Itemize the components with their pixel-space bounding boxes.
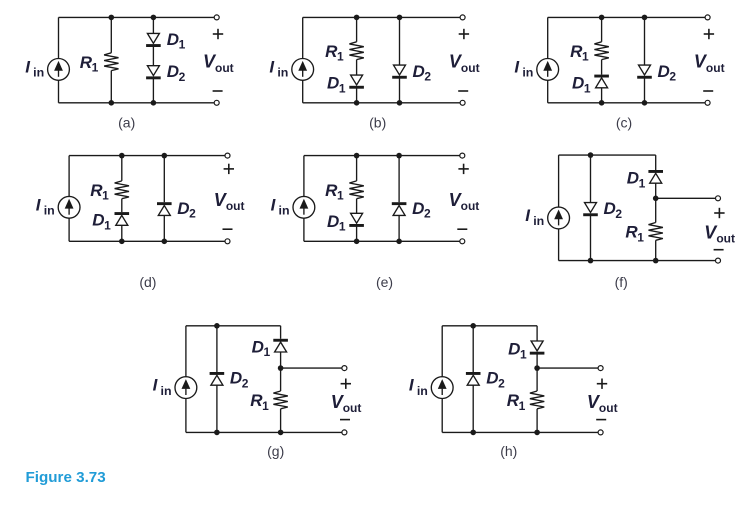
minus sign (d): [223, 228, 233, 230]
wire: (e) R1-D1 branch middle: [356, 199, 358, 214]
plus sign (d): [224, 164, 234, 174]
circuit (b): current source, R1 in series with D1, parallel D2, output Vout: [269, 15, 479, 131]
wire: (d) D2 branch upper: [163, 156, 165, 203]
wire: (d) R1-D1 branch middle: [121, 199, 123, 212]
node: (a) bottom R1 junction: [109, 100, 115, 106]
plus sign (b): [459, 29, 469, 39]
wire: (d) bottom rail: [69, 240, 227, 242]
node: (e) top middle junction: [354, 153, 360, 159]
wire: (d) R1-D1 branch upper: [121, 156, 123, 181]
wire: (h) bottom rail: [442, 431, 600, 433]
circuit (h): current source, parallel D2, D1 in series with R1, output across R1: [409, 323, 618, 459]
plus sign (a): [213, 29, 223, 39]
minus sign (h): [596, 419, 606, 421]
wire: (c) bottom rail: [548, 102, 708, 104]
wire: (c) R1-D1 branch middle: [601, 60, 603, 75]
diode D1 (a): [146, 33, 161, 47]
wire: (b) source branch upper: [302, 17, 304, 58]
minus sign (e): [457, 228, 467, 230]
node: (h) output node: [534, 365, 540, 371]
node: (h) bottom D2 junction: [470, 430, 476, 436]
resistor R1 (a): [104, 53, 118, 71]
svg-text:(g): (g): [267, 443, 284, 459]
circuit (a): current source, R1, series diodes D1 D2, output Vout: [25, 15, 233, 131]
node: (h) bottom R1 junction: [534, 430, 540, 436]
diode D2 (g): [210, 372, 225, 385]
diode D2 (e): [392, 202, 407, 215]
wire: (f) source branch lower: [558, 229, 560, 261]
wire: (e) source branch upper: [303, 156, 305, 197]
wire: (g) top rail: [186, 325, 281, 327]
terminal: (b) Vout -: [460, 100, 465, 105]
wire: (d) source branch lower: [68, 218, 70, 241]
wire: (a) bottom rail: [59, 102, 217, 104]
node: (a) top diode junction: [151, 15, 157, 21]
node: (d) bottom D2 junction: [162, 239, 168, 245]
terminal: (a) Vout +: [214, 15, 219, 20]
diode D2 (d): [157, 202, 172, 215]
diode D1 (h): [530, 341, 545, 355]
wire: (c) R1-D1 branch lower: [601, 88, 603, 103]
circuit (e): current source, R1 in series with D1, parallel D2, output Vout: [271, 153, 480, 290]
wire: (h) D2 branch upper: [472, 326, 474, 372]
current source Iin (c): [537, 59, 559, 81]
wire: (g) D1 branch upper: [280, 326, 282, 339]
wire: (d) D2 branch lower: [163, 215, 165, 241]
wire: (d) R1-D1 branch lower: [121, 225, 123, 241]
wire: (g) D2 branch lower: [216, 385, 218, 432]
diode D2 (f): [583, 203, 598, 217]
svg-text:(c): (c): [616, 115, 632, 131]
svg-text:(e): (e): [376, 274, 393, 290]
svg-text:(d): (d): [139, 274, 156, 290]
wire: (b) source branch lower: [302, 80, 304, 103]
terminal: (a) Vout -: [214, 100, 219, 105]
wire: (b) R1-D1 branch upper: [356, 17, 358, 41]
diode D1 (b): [349, 75, 364, 89]
minus sign (g): [340, 419, 350, 421]
wire: (e) D2 branch upper: [398, 156, 400, 203]
wire: (d) source branch upper: [68, 156, 70, 197]
current source Iin (e): [293, 196, 315, 218]
node: (e) bottom middle junction: [354, 239, 360, 245]
wire: (e) top rail: [304, 155, 462, 157]
wire: (e) source branch lower: [303, 218, 305, 241]
terminal: (h) Vout +: [598, 366, 603, 371]
terminal: (e) Vout +: [460, 153, 465, 158]
wire: (h) D1 to node: [536, 354, 538, 368]
minus sign (b): [458, 90, 468, 92]
diode D1 (c): [594, 75, 609, 88]
wire: (f) D1 to node: [655, 183, 657, 198]
wire: (g) R1 to bottom rail: [280, 409, 282, 433]
resistor R1 (b): [349, 42, 363, 60]
terminal: (c) Vout +: [705, 15, 710, 20]
terminal: (h) Vout -: [598, 430, 603, 435]
current source Iin (f): [548, 207, 570, 229]
svg-text:(f): (f): [615, 274, 628, 290]
svg-text:(a): (a): [118, 115, 135, 131]
terminal: (c) Vout -: [705, 100, 710, 105]
resistor R1 (f): [649, 223, 663, 241]
terminal: (e) Vout -: [460, 239, 465, 244]
wire: (f) D1 branch upper: [655, 155, 657, 170]
node: (c) top D2 junction: [642, 15, 648, 21]
wire: (f) source branch upper: [558, 155, 560, 207]
resistor R1 (c): [594, 42, 608, 60]
wire: (f) R1 to bottom rail: [655, 240, 657, 260]
terminal: (g) Vout -: [342, 430, 347, 435]
wire: (b) top rail: [303, 16, 463, 18]
node: (f) output node: [653, 196, 659, 202]
diode D1 (f): [648, 170, 663, 183]
current source Iin (a): [48, 59, 70, 81]
node: (b) bottom middle junction: [354, 100, 360, 106]
svg-text:(h): (h): [500, 443, 517, 459]
node: (g) bottom D2 junction: [214, 430, 220, 436]
wire: (h) D2 branch lower: [472, 385, 474, 432]
wire: (a) top rail: [59, 16, 217, 18]
plus sign (f): [714, 208, 724, 218]
wire: (e) bottom rail: [304, 240, 462, 242]
diode D1 (g): [273, 339, 288, 352]
wire: (c) D2 branch lower: [644, 78, 646, 102]
plus sign (c): [704, 29, 714, 39]
wire: (g) bottom rail: [186, 431, 345, 433]
wire: (b) D2 branch lower: [399, 78, 401, 102]
wire: (h) output tap: [537, 367, 601, 369]
wire: (c) R1-D1 branch upper: [601, 17, 603, 41]
plus sign (g): [341, 379, 351, 389]
wire: (g) node to R1: [280, 368, 282, 391]
node: (f) top D2 junction: [588, 152, 594, 158]
wire: (f) top rail: [559, 154, 656, 156]
node: (e) bottom D2 junction: [396, 239, 402, 245]
plus sign (h): [597, 379, 607, 389]
terminal: (f) Vout +: [716, 196, 721, 201]
node: (b) top D2 junction: [397, 15, 403, 21]
wire: (e) D2 branch lower: [398, 215, 400, 241]
node: (c) top middle junction: [599, 15, 605, 21]
wire: (h) R1 to bottom rail: [536, 409, 538, 433]
wire: (g) output tap: [281, 367, 345, 369]
plus sign (e): [458, 164, 468, 174]
circuit (d): current source, R1 in series with D1, parallel D2, output Vout: [36, 153, 245, 290]
wire: (g) source branch upper: [185, 326, 187, 377]
node: (a) top R1 junction: [109, 15, 115, 21]
resistor R1 (h): [530, 391, 544, 409]
diode D1 (d): [115, 212, 130, 225]
node: (d) bottom middle junction: [119, 239, 125, 245]
wire: (f) D2 branch upper: [590, 155, 592, 203]
svg-text:(b): (b): [369, 115, 386, 131]
wire: (c) source branch lower: [547, 80, 549, 103]
wire: (h) node to R1: [536, 368, 538, 391]
wire: (h) source branch upper: [441, 326, 443, 377]
circuit (g): current source, parallel D2, D1 in series with R1, output across R1: [153, 323, 362, 459]
wire: (a) source branch lower: [58, 80, 60, 103]
node: (c) bottom middle junction: [599, 100, 605, 106]
terminal: (d) Vout -: [225, 239, 230, 244]
node: (d) top D2 junction: [162, 153, 168, 159]
terminal: (b) Vout +: [460, 15, 465, 20]
wire: (a) source branch upper: [58, 17, 60, 58]
wire: (h) D1 branch upper: [536, 326, 538, 341]
wire: (e) R1-D1 branch lower: [356, 227, 358, 242]
minus sign (f): [714, 249, 724, 251]
resistor R1 (d): [115, 181, 129, 199]
wire: (b) D2 branch upper: [399, 17, 401, 65]
diode D2 (a): [146, 66, 161, 80]
diode D2 (h): [466, 372, 481, 385]
wire: (d) top rail: [69, 155, 227, 157]
node: (d) top middle junction: [119, 153, 125, 159]
current source Iin (d): [58, 196, 80, 218]
wire: (c) top rail: [548, 16, 708, 18]
wire: (a) diode branch upper: [152, 17, 154, 33]
wire: (h) source branch lower: [441, 399, 443, 433]
minus sign (c): [703, 90, 713, 92]
terminal: (g) Vout +: [342, 366, 347, 371]
node: (g) bottom R1 junction: [278, 430, 284, 436]
wire: (e) R1-D1 branch upper: [356, 156, 358, 181]
terminal: (d) Vout +: [225, 153, 230, 158]
circuit (c): current source, R1 in series with D1, parallel D2, output Vout: [514, 15, 724, 131]
node: (g) top D2 junction: [214, 323, 220, 329]
wire: (f) bottom rail: [559, 260, 718, 262]
wire: (a) R1 branch lower: [110, 71, 112, 103]
node: (e) top D2 junction: [396, 153, 402, 159]
wire: (b) R1-D1 branch middle: [356, 60, 358, 76]
current source Iin (h): [431, 377, 453, 399]
wire: (c) source branch upper: [547, 17, 549, 58]
wire: (b) R1-D1 branch lower: [356, 88, 358, 102]
node: (b) top middle junction: [354, 15, 360, 21]
wire: (c) D2 branch upper: [644, 17, 646, 65]
wire: (a) diode branch lower: [152, 79, 154, 103]
wire: (f) node to R1: [655, 198, 657, 222]
node: (c) bottom D2 junction: [642, 100, 648, 106]
terminal: (f) Vout -: [716, 258, 721, 263]
resistor R1 (e): [349, 181, 363, 199]
wire: (g) D1 to node: [280, 352, 282, 368]
wire: (h) top rail: [442, 325, 537, 327]
wire: (g) D2 branch upper: [216, 326, 218, 372]
diode D2 (b): [392, 65, 407, 79]
wire: (f) D2 branch lower: [590, 216, 592, 261]
wire: (f) output tap: [656, 197, 718, 199]
wire: (a) diode branch middle: [152, 47, 154, 66]
node: (f) bottom R1 junction: [653, 258, 659, 264]
wire: (g) source branch lower: [185, 399, 187, 433]
current source Iin (b): [292, 59, 314, 81]
node: (b) bottom D2 junction: [397, 100, 403, 106]
wire: (b) bottom rail: [303, 102, 463, 104]
node: (g) output node: [278, 365, 284, 371]
current source Iin (g): [175, 377, 197, 399]
node: (h) top D2 junction: [470, 323, 476, 329]
circuit (f): current source, parallel D2, D1 in series with R1, output across R1: [525, 152, 735, 290]
diode D1 (e): [349, 213, 364, 227]
minus sign (a): [213, 90, 223, 92]
diode D2 (c): [637, 65, 652, 79]
node: (a) bottom diode junction: [151, 100, 157, 106]
wire: (a) R1 branch upper: [110, 17, 112, 52]
node: (f) bottom D2 junction: [588, 258, 594, 264]
resistor R1 (g): [273, 391, 287, 409]
svg-text:Figure 3.73: Figure 3.73: [26, 469, 106, 486]
